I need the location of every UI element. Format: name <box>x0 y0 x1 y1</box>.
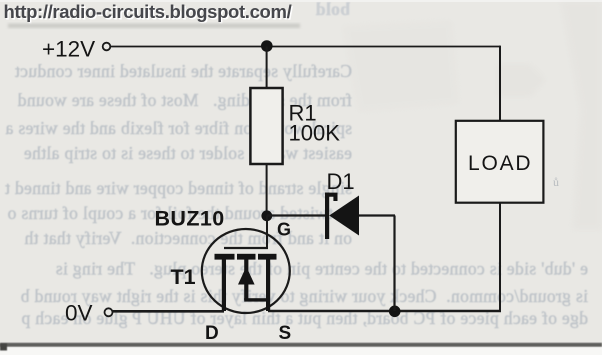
svg-text:BUZ10: BUZ10 <box>155 207 225 231</box>
wire 0V rail <box>113 310 225 313</box>
svg-text:http://radio-circuits.blogspot: http://radio-circuits.blogspot.com/ <box>4 1 292 22</box>
load box <box>456 121 544 203</box>
svg-text:100K: 100K <box>289 121 341 146</box>
top edge light strip <box>0 0 602 2</box>
wire bottom rail right (source to load) <box>268 310 501 313</box>
diode D1 triangle <box>329 196 359 236</box>
wire R1 to gate node <box>266 164 268 216</box>
transistor T1 channel bar source <box>258 254 277 260</box>
wire top rail <box>111 46 501 48</box>
diode D1 cathode hook <box>325 193 338 201</box>
wire load to bottom rail <box>499 203 501 312</box>
terminal +12V <box>103 43 111 51</box>
svg-text:LOAD: LOAD <box>468 152 532 175</box>
node G junction <box>261 210 272 221</box>
svg-text:on it and from the connection.: on it and from the connection. Verify th… <box>24 228 352 248</box>
svg-text:T1: T1 <box>171 265 196 289</box>
resistor R1 <box>250 88 282 164</box>
svg-text:single strand of tinned copper: single strand of tinned copper wire and … <box>5 178 352 198</box>
svg-text:S: S <box>279 323 292 344</box>
wire gate node to diode D1 <box>267 214 325 216</box>
scan shading right band <box>342 0 602 230</box>
terminal 0V <box>105 308 113 316</box>
svg-text:+12V: +12V <box>42 37 95 62</box>
transistor T1 body lead <box>244 259 248 300</box>
transistor T1 gate lead <box>266 216 268 249</box>
svg-text:G: G <box>277 220 291 240</box>
transistor T1 channel bar body <box>237 254 256 260</box>
svg-text:0V: 0V <box>65 301 93 326</box>
wire junction to R1 <box>266 47 268 89</box>
url shadow bar <box>8 24 300 29</box>
svg-text:D: D <box>205 323 219 344</box>
node bottom junction <box>389 306 401 318</box>
wire D1 anode horizontal <box>359 214 395 216</box>
bottom scan border <box>0 343 602 355</box>
wire right side vertical down from top rail <box>499 46 501 120</box>
svg-text:Carefully separate the insulat: Carefully separate the insulated inner c… <box>15 61 352 81</box>
header url bar <box>4 1 301 28</box>
transistor T1 body arrow <box>238 267 255 285</box>
svg-text:is ground/common. Check your: is ground/common. Check your wiring to v… <box>20 286 588 306</box>
transistor T1 body-source link <box>244 298 270 301</box>
transistor T1 source lead <box>266 259 270 311</box>
transistor T1 body circle <box>202 229 290 313</box>
svg-text:e 'dub' side is connected to t: e 'dub' side is connected to the centre … <box>55 259 588 279</box>
wire D1 anode down to bottom rail <box>393 216 395 312</box>
svg-text:bold: bold <box>316 0 350 19</box>
node top junction <box>261 40 273 52</box>
transistor T1 drain lead <box>222 259 226 311</box>
diode D1 cathode bar <box>325 193 329 239</box>
transistor T1 channel bar drain <box>215 254 235 260</box>
svg-text:D1: D1 <box>327 169 355 194</box>
transistor T1 gate bar <box>224 247 268 249</box>
svg-text:ů: ů <box>553 175 559 189</box>
svg-text:easiest way to solder to these: easiest way to solder to these is to str… <box>24 143 352 163</box>
